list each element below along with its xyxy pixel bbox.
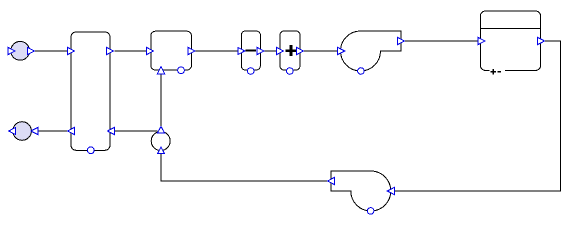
sink circle S2: [9, 122, 38, 141]
wire pressure drop block to pressure rise block: [264, 50, 277, 52]
wire valve block to pressure drop block: [195, 50, 238, 52]
wire source1 to heat exchanger: [35, 50, 68, 52]
pressure rise block (plus): [277, 31, 304, 74]
boiler block B1: [478, 11, 545, 75]
heat exchanger block HX1: [68, 32, 115, 154]
wire valve block bottom to junction top: [160, 74, 162, 126]
wire heat exchanger to sink2: [38, 130, 68, 132]
wire boiler block to pump P2: [394, 41, 560, 191]
wire heat exchanger to valve block: [115, 50, 147, 52]
wire pump P1 to boiler block: [405, 40, 478, 42]
wire junction to heat exchanger return: [114, 130, 158, 132]
junction circle J1: [151, 127, 170, 154]
valve block V1: [147, 31, 196, 74]
wire pump P2 to junction: [161, 154, 328, 181]
source circle S1: [8, 41, 35, 60]
pump P2: [328, 171, 395, 214]
pump P1: [338, 31, 405, 74]
pressure drop block (minus): [238, 31, 264, 74]
wire pressure rise block to pump P1: [304, 50, 338, 52]
